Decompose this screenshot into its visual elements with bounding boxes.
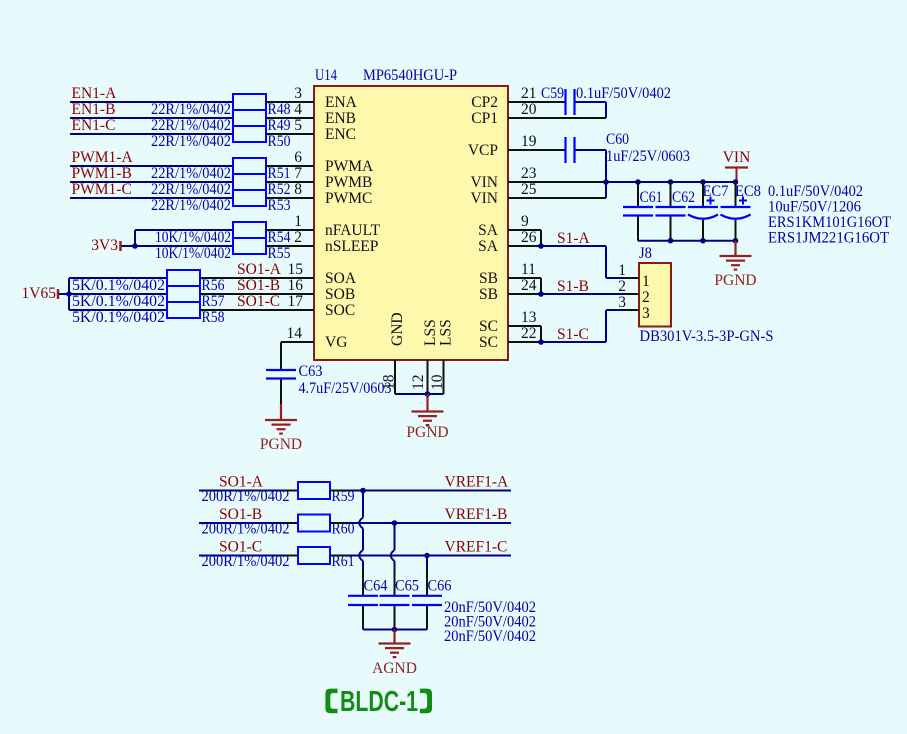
svg-text:VREF1-B: VREF1-B bbox=[445, 506, 508, 523]
capacitor C64 body bbox=[348, 596, 378, 605]
svg-text:AGND: AGND bbox=[372, 660, 417, 677]
wire net SO1-C to U14 bbox=[200, 309, 314, 311]
svg-text:PWM1-B: PWM1-B bbox=[72, 165, 132, 182]
capacitor C66 top pin wire bbox=[426, 567, 428, 595]
net label SO1-B bbox=[237, 277, 280, 294]
svg-text:SO1-A: SO1-A bbox=[237, 261, 282, 278]
wire net VREF1-B bbox=[346, 522, 511, 524]
capacitor C62 designator bbox=[672, 189, 695, 206]
polarized capacitor EC7 bottom pin wire bbox=[702, 220, 704, 241]
svg-text:ERS1JM221G16OT: ERS1JM221G16OT bbox=[768, 230, 889, 247]
svg-text:J8: J8 bbox=[639, 245, 652, 262]
wire VIN rail bbox=[606, 181, 736, 183]
svg-text:PWMC: PWMC bbox=[325, 190, 372, 207]
svg-text:VIN: VIN bbox=[723, 149, 751, 166]
resistor R59 body bbox=[298, 482, 330, 499]
resistor R51 value 22R/1%/0402 bbox=[151, 165, 231, 182]
svg-text:2: 2 bbox=[642, 289, 650, 306]
wire 3V3 node vertical bbox=[134, 230, 136, 246]
svg-text:23: 23 bbox=[521, 165, 537, 182]
resistor R56 value 5K/0.1%/0402 bbox=[72, 277, 165, 294]
polarized capacitor EC7 plus sign bbox=[707, 197, 715, 205]
svg-text:SOC: SOC bbox=[325, 302, 355, 319]
svg-text:2: 2 bbox=[618, 278, 626, 295]
resistor R51 designator bbox=[268, 165, 291, 182]
wire 3V3 to junction bbox=[122, 245, 136, 247]
capacitor C64 top pin wire bbox=[362, 567, 364, 595]
resistor R50 body bbox=[233, 126, 266, 142]
capacitor C66 body bbox=[412, 596, 442, 605]
wire C66 branch bbox=[426, 556, 428, 568]
resistor R57 value 5K/0.1%/0402 bbox=[72, 293, 165, 310]
wire bottom cap ground rail bbox=[363, 629, 427, 631]
power port 3V3 bbox=[91, 237, 120, 254]
capacitor C64 designator bbox=[364, 578, 388, 595]
svg-text:16: 16 bbox=[288, 277, 304, 294]
svg-text:1V65: 1V65 bbox=[22, 285, 57, 302]
wire C60 to VIN node bbox=[576, 150, 607, 198]
svg-text:VCP: VCP bbox=[468, 142, 498, 159]
svg-text:EC7: EC7 bbox=[703, 183, 729, 200]
svg-text:VIN: VIN bbox=[470, 190, 498, 207]
polarized capacitor EC8 body bbox=[721, 207, 751, 219]
connector J8 body bbox=[639, 263, 671, 327]
pin number 21 bbox=[521, 85, 537, 102]
svg-text:R50: R50 bbox=[268, 133, 291, 150]
resistor R48 body bbox=[233, 94, 266, 110]
svg-text:PGND: PGND bbox=[260, 436, 302, 453]
pin 20 wire CP1 bbox=[508, 117, 606, 119]
svg-text:ENA: ENA bbox=[325, 94, 358, 111]
pin 8 wire to U14 bbox=[266, 197, 314, 199]
svg-text:C66: C66 bbox=[428, 578, 452, 595]
svg-text:ENB: ENB bbox=[325, 110, 356, 127]
pin 10 wire LSS bbox=[443, 360, 445, 394]
svg-text:1: 1 bbox=[294, 213, 302, 230]
svg-text:C59: C59 bbox=[541, 85, 564, 102]
svg-text:19: 19 bbox=[521, 133, 537, 150]
svg-text:VIN: VIN bbox=[470, 174, 498, 191]
wire net SO1-B to U14 bbox=[200, 293, 314, 295]
svg-text:200R/1%/0402: 200R/1%/0402 bbox=[202, 488, 290, 505]
svg-text:22R/1%/0402: 22R/1%/0402 bbox=[151, 181, 231, 198]
wire to R55 bbox=[135, 245, 233, 247]
wire C59 to pin 20 bbox=[576, 102, 607, 118]
wire rail to PGND bbox=[426, 394, 428, 412]
pin number 18 bbox=[381, 374, 398, 390]
svg-text:CP1: CP1 bbox=[471, 110, 498, 127]
junction VIN rail at C60 branch bbox=[603, 179, 609, 185]
wire to R54 bbox=[135, 229, 233, 231]
power port VIN bbox=[723, 149, 751, 182]
resistor R48 designator bbox=[268, 101, 291, 118]
net label PWM1-B bbox=[72, 165, 132, 182]
junction at 3V3 node bbox=[132, 243, 138, 249]
pin number 1 bbox=[294, 213, 302, 230]
IC U14 right pin names bbox=[468, 94, 499, 351]
svg-text:CP2: CP2 bbox=[471, 94, 498, 111]
pin number 20 bbox=[521, 101, 537, 118]
pin 11 and 24 wires SB bbox=[508, 278, 541, 294]
svg-text:nSLEEP: nSLEEP bbox=[325, 238, 378, 255]
resistor R54 value 10K/1%/0402 bbox=[155, 229, 231, 246]
svg-text:26: 26 bbox=[521, 229, 537, 246]
svg-text:22R/1%/0402: 22R/1%/0402 bbox=[151, 133, 231, 150]
power port 1V65 bbox=[22, 285, 58, 302]
wire VIN cap ground rail bbox=[638, 240, 736, 242]
ground AGND label bbox=[372, 660, 417, 677]
resistor R53 value 22R/1%/0402 bbox=[151, 197, 231, 214]
net label SO1-B bottom bbox=[219, 506, 262, 523]
net label S1-A bbox=[557, 230, 591, 247]
capacitor C59 value 0.1uF/50V/0402 bbox=[576, 85, 671, 102]
pin number 24 bbox=[521, 277, 537, 294]
svg-text:R48: R48 bbox=[268, 101, 291, 118]
svg-text:18: 18 bbox=[381, 374, 398, 390]
wire net PWM1-A bbox=[70, 165, 233, 167]
wire 1V65 to junction bbox=[59, 293, 69, 295]
svg-text:3V3: 3V3 bbox=[91, 237, 118, 254]
resistor R52 designator bbox=[268, 181, 291, 198]
net label EN1-B bbox=[72, 101, 116, 118]
resistor R58 body bbox=[167, 302, 200, 318]
net label VREF1-B bbox=[445, 506, 508, 523]
resistor R61 left pin bbox=[281, 555, 298, 557]
pin 23 wire VIN bbox=[508, 181, 606, 183]
pin 14 wire VG bbox=[281, 342, 314, 370]
IC U14 left pin names bbox=[325, 94, 381, 351]
svg-text:11: 11 bbox=[521, 261, 536, 278]
wire net EN1-C bbox=[70, 133, 233, 135]
net label SO1-A bottom bbox=[219, 474, 264, 491]
resistor R49 designator bbox=[268, 117, 291, 134]
svg-text:22R/1%/0402: 22R/1%/0402 bbox=[151, 117, 231, 134]
junction VIN rail at C62 bbox=[668, 179, 674, 185]
junction SC node bbox=[538, 339, 544, 345]
resistor R53 body bbox=[233, 190, 266, 206]
wire net S1-C bbox=[541, 310, 623, 342]
polarized capacitor EC8 plus sign bbox=[739, 197, 747, 205]
pin number 6 bbox=[294, 149, 302, 166]
net label EN1-A bbox=[72, 85, 118, 102]
capacitor C59 body bbox=[566, 89, 575, 115]
polarized capacitor EC8 designator bbox=[735, 183, 761, 200]
svg-text:7: 7 bbox=[294, 165, 302, 182]
IC U14 bottom pin names GND LSS LSS bbox=[389, 312, 455, 346]
pin 13 and 22 wires SC bbox=[508, 326, 541, 342]
wire C63 to ground bbox=[280, 380, 282, 420]
svg-text:EC8: EC8 bbox=[735, 183, 761, 200]
svg-text:SA: SA bbox=[478, 238, 499, 255]
resistor R59 left pin bbox=[281, 490, 298, 492]
svg-text:R55: R55 bbox=[268, 245, 291, 262]
capacitor C61 body bbox=[623, 207, 653, 216]
capacitor C62 bottom pin wire bbox=[670, 217, 672, 241]
svg-text:R53: R53 bbox=[268, 197, 291, 214]
svg-text:5K/0.1%/0402: 5K/0.1%/0402 bbox=[72, 309, 165, 326]
pin 25 wire VIN bbox=[508, 197, 606, 199]
resistor R59 designator bbox=[332, 488, 355, 505]
capacitor C62 body bbox=[656, 207, 686, 216]
svg-text:SA: SA bbox=[478, 222, 499, 239]
wire net EN1-A bbox=[70, 101, 233, 103]
svg-text:SO1-B: SO1-B bbox=[237, 277, 280, 294]
resistor R49 value 22R/1%/0402 bbox=[151, 117, 231, 134]
svg-text:LSS: LSS bbox=[438, 319, 455, 346]
ground PGND label under U14 bbox=[406, 424, 448, 441]
svg-text:S1-B: S1-B bbox=[557, 278, 589, 295]
svg-text:nFAULT: nFAULT bbox=[325, 222, 381, 239]
svg-text:S1-A: S1-A bbox=[557, 230, 591, 247]
resistor R59 right pin bbox=[330, 490, 346, 492]
svg-text:EN1-B: EN1-B bbox=[72, 101, 116, 118]
svg-text:SOB: SOB bbox=[325, 286, 355, 303]
capacitor C63 value 4.7uF/25V/0603 bbox=[299, 380, 392, 397]
svg-text:EN1-A: EN1-A bbox=[72, 85, 118, 102]
svg-text:BLDC-1: BLDC-1 bbox=[340, 686, 418, 718]
connector J8 part number bbox=[640, 328, 774, 345]
pin number 2 bbox=[294, 229, 302, 246]
ground PGND label right bbox=[714, 272, 756, 289]
pin number 13 bbox=[521, 309, 537, 326]
svg-text:R56: R56 bbox=[202, 277, 225, 294]
connector J8 pin 2 bbox=[618, 278, 650, 306]
junction on GND rail bbox=[425, 391, 431, 397]
svg-text:24: 24 bbox=[521, 277, 537, 294]
svg-text:PGND: PGND bbox=[714, 272, 756, 289]
resistor R49 body bbox=[233, 110, 266, 126]
capacitor C60 value 1uF/25V/0603 bbox=[606, 148, 690, 165]
resistor R52 value 22R/1%/0402 bbox=[151, 181, 231, 198]
svg-text:R52: R52 bbox=[268, 181, 291, 198]
ground PGND symbol under C63 bbox=[265, 420, 297, 434]
svg-text:200R/1%/0402: 200R/1%/0402 bbox=[202, 553, 290, 570]
title text BLDC-1 bbox=[340, 686, 418, 718]
svg-text:17: 17 bbox=[288, 293, 304, 310]
svg-text:1: 1 bbox=[618, 262, 626, 279]
svg-text:200R/1%/0402: 200R/1%/0402 bbox=[202, 521, 290, 538]
svg-text:SC: SC bbox=[479, 318, 498, 335]
capacitor C60 body bbox=[566, 137, 575, 163]
svg-text:3: 3 bbox=[642, 305, 650, 322]
pin number 12 bbox=[410, 375, 427, 391]
svg-text:22R/1%/0402: 22R/1%/0402 bbox=[151, 197, 231, 214]
svg-text:5: 5 bbox=[294, 117, 302, 134]
pin number 16 bbox=[288, 277, 304, 294]
resistor R58 value 5K/0.1%/0402 bbox=[72, 309, 165, 326]
resistor R60 right pin bbox=[330, 522, 346, 524]
junction ground rail at EC8 bbox=[733, 238, 739, 244]
resistor R61 value 200R/1%/0402 bbox=[202, 553, 290, 570]
pin number 15 bbox=[288, 261, 304, 278]
resistor R50 designator bbox=[268, 133, 291, 150]
capacitor C60 designator bbox=[606, 131, 629, 148]
capacitor C61 designator bbox=[640, 189, 663, 206]
svg-text:3: 3 bbox=[294, 85, 302, 102]
svg-text:C61: C61 bbox=[640, 189, 663, 206]
svg-text:14: 14 bbox=[287, 325, 303, 342]
capacitor C64-C66 values bbox=[444, 599, 536, 645]
IC U14 designator bbox=[315, 67, 337, 84]
junction VIN rail at EC8 bbox=[733, 179, 739, 185]
resistor R55 value 10K/1%/0402 bbox=[155, 245, 231, 262]
pin 12 wire LSS bbox=[427, 360, 429, 394]
svg-text:5K/0.1%/0402: 5K/0.1%/0402 bbox=[72, 277, 165, 294]
capacitor C66 designator bbox=[428, 578, 452, 595]
svg-text:10K/1%/0402: 10K/1%/0402 bbox=[155, 245, 231, 262]
wire 1V65 to R58 bbox=[69, 309, 167, 311]
resistor R59 value 200R/1%/0402 bbox=[202, 488, 290, 505]
svg-text:2: 2 bbox=[294, 229, 302, 246]
svg-text:SB: SB bbox=[479, 286, 498, 303]
wire net SO1-B bottom bbox=[199, 522, 281, 524]
pin 2 wire to U14 bbox=[266, 245, 314, 247]
svg-text:R54: R54 bbox=[268, 229, 291, 246]
capacitor C64 bottom pin wire bbox=[362, 606, 364, 630]
svg-text:15: 15 bbox=[288, 261, 304, 278]
junction ground rail at EC7 bbox=[700, 238, 706, 244]
pin number 14 bbox=[287, 325, 303, 342]
svg-text:ENC: ENC bbox=[325, 126, 356, 143]
capacitor C61 bottom pin wire bbox=[637, 217, 639, 241]
pin 19 wire VCP bbox=[508, 149, 565, 151]
pin 7 wire to U14 bbox=[266, 181, 314, 183]
junction VREF1-C at C66 bbox=[424, 553, 430, 559]
svg-text:VREF1-C: VREF1-C bbox=[445, 539, 508, 556]
net label EN1-C bbox=[72, 117, 116, 134]
resistor R57 designator bbox=[202, 293, 225, 310]
capacitor C59 designator bbox=[541, 85, 564, 102]
pin 4 wire to U14 bbox=[266, 117, 314, 119]
capacitor C65 designator bbox=[395, 578, 419, 595]
ground AGND symbol bbox=[379, 644, 411, 658]
svg-text:13: 13 bbox=[521, 309, 537, 326]
pin number 25 bbox=[521, 181, 537, 198]
pin number 22 bbox=[521, 325, 537, 342]
svg-text:12: 12 bbox=[410, 375, 427, 391]
resistor R54 body bbox=[233, 222, 266, 238]
svg-text:LSS: LSS bbox=[422, 319, 439, 346]
pin 21 wire CP2 bbox=[508, 101, 565, 103]
svg-text:U14: U14 bbox=[315, 67, 337, 84]
resistor R55 body bbox=[233, 238, 266, 254]
pin 18 wire GND bbox=[394, 360, 396, 394]
capacitor C61 top pin wire bbox=[637, 182, 639, 206]
polarized capacitor EC8 top pin wire bbox=[735, 182, 737, 206]
wire net VREF1-C bbox=[346, 555, 511, 557]
wire 1V65 node vertical bbox=[68, 278, 70, 310]
junction bottom ground rail bbox=[392, 627, 398, 633]
wire net PWM1-C bbox=[70, 197, 233, 199]
svg-text:22R/1%/0402: 22R/1%/0402 bbox=[151, 101, 231, 118]
junction VREF1-B at C65 bbox=[392, 520, 398, 526]
junction VREF1-A at C64 bbox=[360, 488, 366, 494]
connector J8 pin 1 bbox=[618, 262, 650, 290]
resistor R60 body bbox=[298, 515, 330, 532]
svg-text:0.1uF/50V/0402: 0.1uF/50V/0402 bbox=[768, 183, 863, 200]
pin 5 wire to U14 bbox=[266, 133, 314, 135]
resistor R61 right pin bbox=[330, 555, 346, 557]
resistor R61 designator bbox=[332, 553, 355, 570]
wire net SO1-A to U14 bbox=[200, 277, 314, 279]
svg-text:C60: C60 bbox=[606, 131, 629, 148]
svg-text:PWM1-C: PWM1-C bbox=[72, 181, 132, 198]
svg-text:SOA: SOA bbox=[325, 270, 357, 287]
net label VREF1-C bbox=[445, 539, 508, 556]
svg-text:6: 6 bbox=[294, 149, 302, 166]
pin number 10 bbox=[429, 374, 446, 390]
resistor R53 designator bbox=[268, 197, 291, 214]
svg-text:GND: GND bbox=[389, 312, 406, 346]
pin number 11 bbox=[521, 261, 536, 278]
resistor R48 value 22R/1%/0402 bbox=[151, 101, 231, 118]
junction ground rail at C62 bbox=[668, 238, 674, 244]
ground PGND symbol right bbox=[720, 256, 752, 270]
svg-text:PWM1-A: PWM1-A bbox=[72, 149, 134, 166]
svg-text:C62: C62 bbox=[672, 189, 695, 206]
resistor R57 body bbox=[167, 286, 200, 302]
net label PWM1-A bbox=[72, 149, 134, 166]
pin 1 wire to U14 bbox=[266, 229, 314, 231]
wire 1V65 to R56 bbox=[69, 277, 167, 279]
pin number 17 bbox=[288, 293, 304, 310]
pin 3 wire to U14 bbox=[266, 101, 314, 103]
polarized capacitor EC7 designator bbox=[703, 183, 729, 200]
svg-text:25: 25 bbox=[521, 181, 537, 198]
wire net S1-A bbox=[541, 246, 623, 278]
svg-text:5K/0.1%/0402: 5K/0.1%/0402 bbox=[72, 293, 165, 310]
svg-text:C65: C65 bbox=[395, 578, 419, 595]
wire net EN1-B bbox=[70, 117, 233, 119]
net label S1-B bbox=[557, 278, 589, 295]
capacitor C66 bottom pin wire bbox=[426, 606, 428, 630]
junction VIN rail at C61 bbox=[635, 179, 641, 185]
connector J8 designator bbox=[639, 245, 652, 262]
net label S1-C bbox=[557, 326, 589, 343]
svg-text:R58: R58 bbox=[202, 309, 225, 326]
capacitor C63 body bbox=[266, 370, 296, 379]
pin number 4 bbox=[294, 101, 302, 118]
junction SB node bbox=[538, 291, 544, 297]
svg-text:9: 9 bbox=[521, 213, 529, 230]
svg-text:10: 10 bbox=[429, 374, 446, 390]
svg-text:SB: SB bbox=[479, 270, 498, 287]
capacitor C65 top pin wire bbox=[394, 567, 396, 595]
svg-text:R57: R57 bbox=[202, 293, 225, 310]
svg-text:1: 1 bbox=[642, 273, 650, 290]
net label SO1-C bottom bbox=[219, 539, 262, 556]
svg-text:C64: C64 bbox=[364, 578, 388, 595]
wire net SO1-A bottom bbox=[199, 490, 281, 492]
svg-text:8: 8 bbox=[294, 181, 302, 198]
svg-text:VG: VG bbox=[325, 334, 347, 351]
pin 9 and 26 wires SA bbox=[508, 230, 541, 246]
wire rail to AGND bbox=[393, 630, 395, 644]
wire net S1-B bbox=[541, 293, 623, 295]
pin number 19 bbox=[521, 133, 537, 150]
resistor R52 body bbox=[233, 174, 266, 190]
pin number 9 bbox=[521, 213, 529, 230]
net label SO1-C bbox=[237, 293, 280, 310]
svg-text:1uF/25V/0603: 1uF/25V/0603 bbox=[606, 148, 690, 165]
svg-text:10uF/50V/1206: 10uF/50V/1206 bbox=[768, 199, 861, 216]
IC U14 MP6540HGU-P body bbox=[314, 86, 508, 360]
ground PGND label under C63 bbox=[260, 436, 302, 453]
connector J8 pin 3 bbox=[618, 294, 650, 322]
svg-text:21: 21 bbox=[521, 85, 537, 102]
wire net PWM1-B bbox=[70, 181, 233, 183]
svg-text:ERS1KM101G16OT: ERS1KM101G16OT bbox=[768, 214, 891, 231]
